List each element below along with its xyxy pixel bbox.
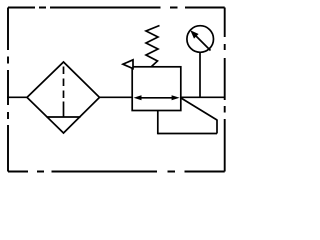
pilot feedback line (right vertical) <box>216 120 218 134</box>
regulator flow path (double-headed arrow) <box>139 97 174 99</box>
relief port triangle <box>123 60 133 69</box>
water separator chord (triangle top) <box>47 116 81 118</box>
wire: filter to regulator <box>99 96 133 98</box>
pilot feedback line (drop from regulator bottom) <box>157 111 159 135</box>
enclosure left border (dash-dot) <box>7 8 9 172</box>
gauge needle arrowhead <box>190 30 198 38</box>
pressure gauge G1 (dial) <box>187 26 214 53</box>
arrowhead left <box>134 95 142 100</box>
wire: regulator to right border (outlet) <box>181 96 225 98</box>
gauge needle <box>196 36 211 51</box>
filter F1 (diamond body) <box>27 62 100 133</box>
pilot feedback line (diagonal) <box>181 98 217 120</box>
filter element (dashed center line) <box>63 67 65 99</box>
wire: gauge stem <box>199 53 201 98</box>
wire: inlet line from left border to filter <box>7 96 28 98</box>
pilot feedback line (bottom horizontal) <box>158 133 217 135</box>
regulator R1 (valve body) <box>132 67 181 111</box>
arrowhead right <box>172 95 180 100</box>
enclosure top border (dash-dot) <box>8 7 225 9</box>
enclosure bottom border (dash-dot) <box>8 171 225 173</box>
spring (adjustment zigzag) <box>146 26 160 67</box>
water separator drain line <box>63 102 65 118</box>
enclosure right border (dash-dot) <box>224 8 226 172</box>
